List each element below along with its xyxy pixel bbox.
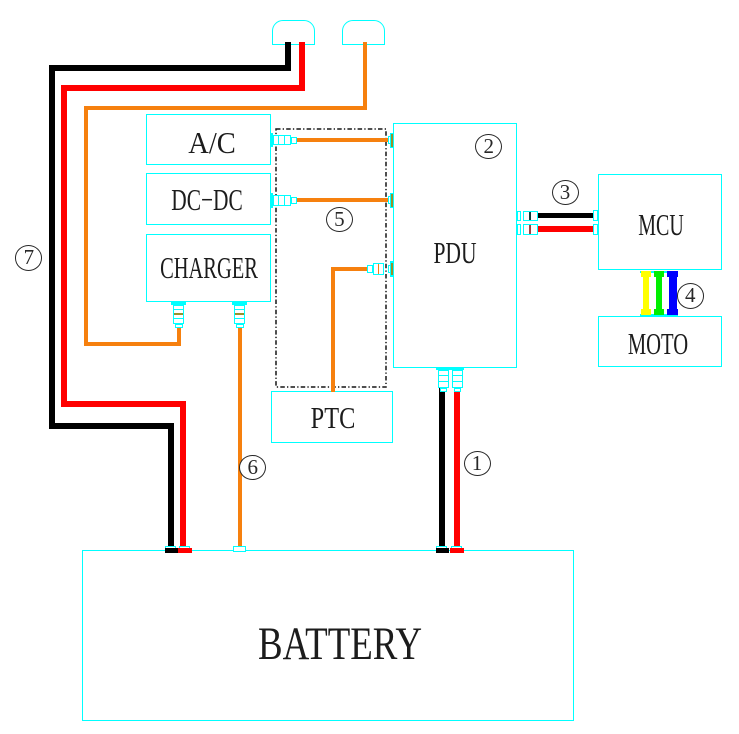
wire black 7 drop to battery — [168, 423, 174, 553]
wire orange PDU -> PTC vertical — [331, 267, 335, 392]
PDU left socket row1 pin — [391, 134, 393, 147]
label MCU — [638, 207, 684, 243]
ribbon green — [656, 271, 662, 317]
PDU left socket row3 pin — [391, 263, 393, 276]
PDU bottom plug feet — [440, 388, 447, 393]
label PTC — [310, 400, 355, 436]
box MOTO — [598, 316, 722, 367]
wire orange drop from dome2 — [363, 42, 367, 110]
box A/C — [146, 114, 271, 165]
plug A/C output flange — [270, 133, 273, 148]
battery foot red1 — [450, 548, 464, 553]
PDU right plug body red row — [523, 224, 538, 235]
label BATTERY — [258, 617, 422, 671]
wire orange top horizontal — [84, 106, 367, 110]
label MOTO — [627, 326, 687, 362]
wire orange left vertical — [84, 106, 88, 346]
box DC-DC — [146, 173, 271, 225]
dashed junction box 5 — [275, 128, 387, 388]
wire black 1 — [439, 388, 445, 552]
wire orange 6 — [238, 327, 242, 552]
box MCU — [598, 174, 722, 270]
plug A/C output body — [273, 135, 292, 146]
PDU right socket flange slots — [517, 211, 521, 222]
wire black 3 — [536, 213, 597, 219]
label circled 4 — [677, 283, 704, 309]
box CHARGER — [146, 234, 271, 303]
PDU bottom plug right body — [452, 370, 463, 388]
wire black 7 top horizontal — [49, 65, 291, 71]
PDU left socket row1 bracket — [388, 136, 391, 145]
charge inlet dome 2 — [342, 20, 385, 45]
wire black 7 drop from dome1 — [285, 42, 291, 70]
battery pad black7 — [165, 546, 176, 551]
label circled 2 — [475, 134, 502, 160]
CHARGER bottom plug2 flange — [232, 302, 247, 305]
label circled 7 — [15, 245, 42, 271]
PDU bottom plug top bar — [436, 367, 464, 370]
wire orange A/C -> PDU — [295, 138, 390, 142]
label circled 1 — [464, 451, 491, 477]
box BATTERY — [82, 550, 574, 721]
label DC-DC — [171, 182, 243, 218]
wire red 7 top horizontal — [61, 85, 305, 91]
wire red 7 drop to battery — [180, 401, 186, 553]
label A/C — [188, 125, 236, 161]
MCU left socket bottom — [593, 224, 598, 235]
wire red 7 bottom horizontal — [61, 401, 186, 407]
PDU left socket row3 flange — [390, 261, 394, 277]
ribbon top caps — [640, 271, 678, 273]
CHARGER bottom plug2 body — [234, 305, 245, 324]
wire orange bottom horizontal — [84, 342, 181, 346]
label circled 5 — [326, 207, 353, 233]
plug DC-DC output body — [273, 195, 292, 206]
battery foot red7 — [178, 548, 192, 553]
CHARGER bottom plug2 stripes — [235, 309, 245, 310]
box PTC — [271, 391, 393, 443]
PDU bottom plug left body — [438, 370, 449, 388]
PDU left socket row2 pin — [391, 194, 393, 207]
wire black 7 left vertical — [49, 65, 55, 429]
battery foot black7 — [165, 548, 178, 553]
PDU left socket row3 bracket — [388, 265, 391, 274]
ribbon bottom caps — [640, 314, 678, 316]
label circled 6 — [239, 455, 266, 481]
PDU bottom plug right body slots — [452, 375, 462, 376]
wire orange DC-DC -> PDU — [295, 198, 390, 202]
PDU left socket row2 flange — [390, 193, 394, 209]
CHARGER bottom plug1 foot — [175, 324, 183, 329]
battery foot black1 — [436, 548, 449, 553]
plug PTC body pin — [378, 264, 380, 274]
wire red 7 drop from dome1 — [299, 42, 305, 91]
wire red 7 left vertical — [61, 85, 67, 407]
label CHARGER — [160, 250, 258, 286]
CHARGER bottom plug1 stripes — [174, 309, 184, 310]
plug PTC body — [373, 263, 385, 275]
CHARGER bottom plug1 body — [173, 305, 184, 324]
PDU left socket row1 flange — [390, 133, 394, 149]
plug DC-DC output body slot lines — [278, 196, 279, 206]
CHARGER bottom plug2 foot — [236, 324, 244, 329]
plug DC-DC output tip — [291, 197, 297, 204]
label circled 3 — [552, 180, 579, 206]
plug DC-DC output flange — [270, 193, 273, 208]
PDU bottom plug left body slots — [438, 375, 448, 376]
MCU left socket top — [593, 210, 598, 221]
battery pad orange6 — [233, 546, 246, 552]
wire orange PDU -> PTC horizontal — [331, 267, 368, 271]
plug A/C output tip — [291, 137, 297, 144]
CHARGER bottom plug1 flange — [171, 302, 186, 305]
box PDU — [393, 123, 517, 368]
wire black 7 bottom horizontal — [49, 423, 174, 429]
battery pad red7 — [179, 546, 190, 551]
ribbon yellow — [643, 271, 649, 317]
PDU right plug black pin — [529, 212, 531, 221]
wire orange rise to charger plug — [177, 326, 181, 346]
PDU right plug body black row — [523, 211, 538, 222]
battery pad black1 — [436, 546, 447, 551]
label PDU — [433, 235, 476, 271]
ribbon blue — [669, 271, 677, 317]
battery pad red1 — [451, 546, 462, 551]
wire red 1 — [454, 388, 460, 552]
PDU right plug red pin — [529, 225, 531, 234]
charge inlet dome 1 — [272, 20, 315, 45]
PDU left socket row2 bracket — [388, 196, 391, 205]
wire red 3 — [536, 226, 597, 232]
plug PTC tip — [367, 265, 373, 273]
plug A/C output body slot lines — [278, 135, 279, 145]
